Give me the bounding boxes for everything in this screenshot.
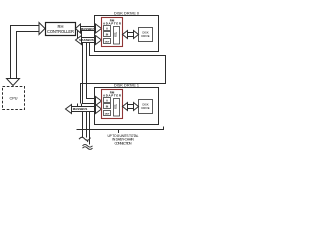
svg-text:DCL: DCL <box>115 103 117 108</box>
svg-text:MASSBUS: MASSBUS <box>81 27 96 31</box>
DCL drive0 <box>114 27 120 45</box>
node leader line to note <box>77 127 164 134</box>
note text <box>108 134 139 146</box>
RH controller U1 <box>46 23 76 36</box>
RM adapter drive0 <box>102 18 123 47</box>
connector IN drive0 <box>104 32 111 37</box>
connector A drive0 <box>104 26 111 31</box>
massbus lower drive0 <box>76 36 102 45</box>
svg-text:DISK DRIVE 0: DISK DRIVE 0 <box>114 12 139 16</box>
wire tee down drive1 <box>78 104 82 107</box>
svg-text:DISK: DISK <box>142 103 148 107</box>
bus CPU to RH controller <box>7 23 46 86</box>
disk drive mechanism drive1 <box>139 100 153 114</box>
connector A drive1 <box>104 98 111 103</box>
wire adapter to disk drive1 <box>123 103 139 111</box>
svg-text:A: A <box>106 27 108 30</box>
svg-text:IN: IN <box>106 105 109 108</box>
svg-text:DRIVE: DRIVE <box>141 34 149 38</box>
svg-text:CONNECTION: CONNECTION <box>115 141 133 145</box>
svg-text:ADAPTER: ADAPTER <box>103 22 122 26</box>
connector OUT drive0 <box>104 39 111 44</box>
svg-text:DISK: DISK <box>142 31 148 35</box>
wire bypass cable right side <box>81 43 166 104</box>
svg-text:CONTROLLER: CONTROLLER <box>47 29 74 34</box>
CPU <box>3 87 25 110</box>
disk drive 0 enclosure <box>95 16 159 52</box>
svg-text:OUT: OUT <box>105 113 110 115</box>
svg-text:DISK DRIVE 1: DISK DRIVE 1 <box>114 84 139 88</box>
svg-text:DCL: DCL <box>115 31 117 36</box>
svg-text:OUT: OUT <box>105 41 110 43</box>
wire daisy chain cable drive0 to drive1 <box>83 43 102 106</box>
disk drive mechanism drive0 <box>139 28 153 42</box>
svg-text:A: A <box>106 99 108 102</box>
massbus upper drive0 <box>76 24 102 33</box>
connector IN drive1 <box>104 104 111 109</box>
break symbol 1 <box>79 137 91 142</box>
wire tee down drive0 <box>78 31 82 39</box>
svg-text:IN: IN <box>106 33 109 36</box>
wire continuation below drive1 <box>83 112 90 145</box>
svg-text:ADAPTER: ADAPTER <box>103 94 122 98</box>
svg-text:MASSBUS: MASSBUS <box>73 107 88 111</box>
disk drive 1 enclosure <box>95 88 159 125</box>
RM adapter drive1 <box>102 90 123 119</box>
svg-text:DRIVE: DRIVE <box>141 106 149 110</box>
connector OUT drive1 <box>104 111 111 116</box>
DCL drive1 <box>114 99 120 117</box>
svg-text:MASSBUS: MASSBUS <box>79 38 94 42</box>
massbus lower drive1 <box>66 105 102 114</box>
break symbol 2 <box>83 145 93 150</box>
wire adapter to disk drive0 <box>123 31 139 39</box>
svg-text:CPU: CPU <box>9 97 17 101</box>
